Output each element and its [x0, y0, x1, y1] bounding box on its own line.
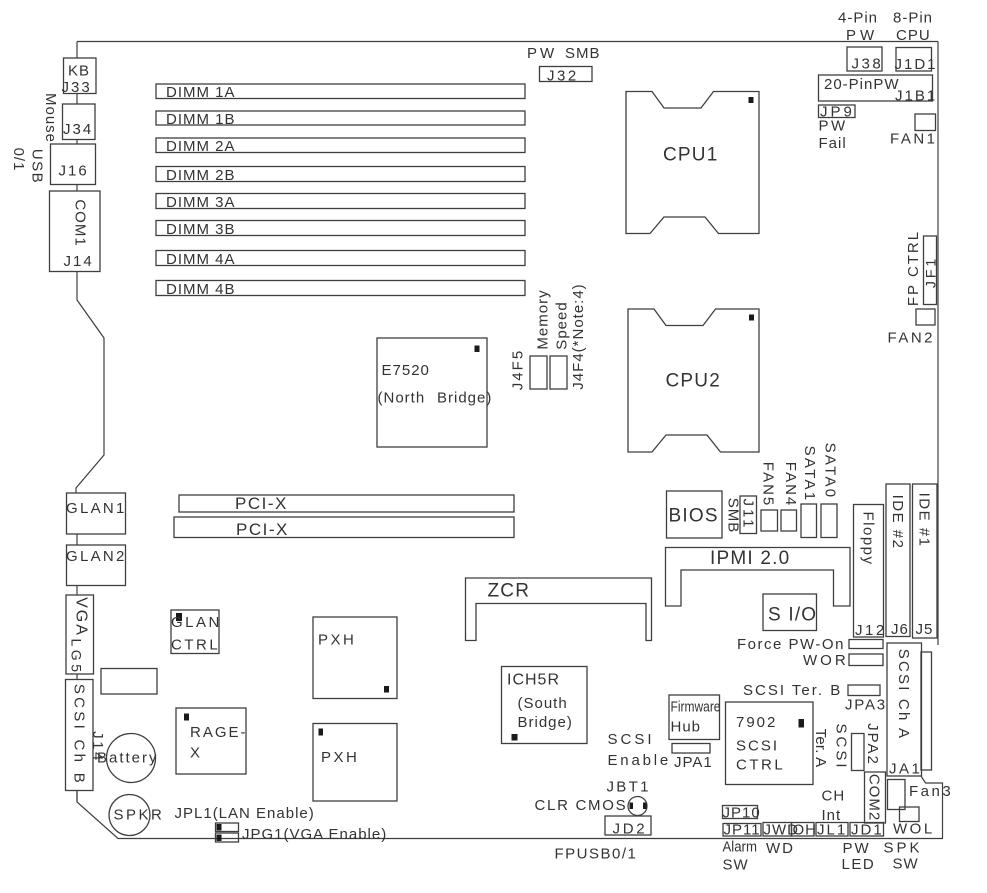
svg-text:J14: J14: [64, 253, 94, 270]
small unlabeled box near VGA: [101, 669, 157, 695]
svg-text:Mouse: Mouse: [42, 93, 59, 143]
svg-text:IDE #2: IDE #2: [889, 495, 906, 550]
svg-text:DIMM 4A: DIMM 4A: [166, 251, 236, 268]
svg-text:SCSI Ter. B: SCSI Ter. B: [743, 682, 842, 699]
svg-text:SMB: SMB: [565, 45, 601, 62]
jumper JWD WD: [763, 822, 799, 858]
svg-text:J11: J11: [739, 498, 756, 530]
svg-text:J16: J16: [59, 163, 89, 180]
svg-text:PCI-X: PCI-X: [235, 494, 288, 513]
svg-text:VGA: VGA: [72, 597, 89, 637]
chip ICH5R South Bridge: [502, 667, 588, 744]
svg-text:FP CTRL: FP CTRL: [905, 230, 922, 306]
wire board bottom-right notch: [77, 776, 943, 839]
connector FP CTRL JF1: [905, 230, 939, 306]
connector KB J33: [62, 58, 97, 96]
jumper J11 SMB: [724, 496, 756, 534]
svg-text:20-PinPW: 20-PinPW: [824, 76, 900, 93]
svg-text:CH: CH: [822, 788, 846, 805]
svg-text:JPG1(VGA Enable): JPG1(VGA Enable): [242, 826, 387, 843]
svg-text:IDE #1: IDE #1: [915, 493, 932, 548]
svg-text:J1B1: J1B1: [895, 88, 937, 105]
svg-text:JPA3: JPA3: [845, 697, 887, 714]
jumper JPG1 (VGA Enable): [216, 826, 388, 843]
svg-text:WD: WD: [766, 840, 795, 857]
jumper WOR: [803, 652, 883, 669]
DIMM 2A slot: [156, 138, 525, 155]
svg-text:WOR: WOR: [803, 652, 849, 669]
DIMM 1A slot: [156, 84, 525, 101]
connector GLAN1: [66, 493, 127, 534]
svg-text:SATA0: SATA0: [821, 443, 838, 500]
svg-text:CPU1: CPU1: [663, 145, 718, 166]
DIMM 3A slot: [156, 194, 525, 212]
svg-text:KB: KB: [68, 63, 90, 80]
svg-text:CLR CMOS: CLR CMOS: [535, 797, 628, 814]
svg-text:J4F4(*Note:4): J4F4(*Note:4): [570, 283, 587, 389]
svg-text:J34: J34: [63, 121, 93, 138]
connector JD2 FPUSB0/1: [555, 816, 652, 863]
connector 20-Pin PW J1B1: [819, 75, 938, 105]
svg-text:SMB: SMB: [724, 498, 741, 534]
svg-text:Fan3: Fan3: [909, 783, 953, 800]
svg-text:FAN2: FAN2: [888, 330, 936, 347]
slot ZCR: [466, 578, 652, 641]
connector FAN1: [890, 114, 938, 148]
svg-text:BIOS: BIOS: [669, 506, 719, 527]
svg-text:(North: (North: [378, 390, 426, 407]
svg-text:PXH: PXH: [321, 749, 359, 766]
svg-text:JPA2: JPA2: [864, 723, 881, 766]
socket CPU1: [626, 92, 759, 234]
jumper JPL1 (LAN Enable): [175, 805, 315, 832]
svg-text:8-Pin: 8-Pin: [893, 10, 933, 27]
svg-text:SPKR: SPKR: [114, 807, 165, 824]
svg-text:CPU: CPU: [896, 27, 931, 44]
jumper JPA2: [852, 723, 881, 770]
connector GLAN2: [66, 545, 127, 586]
chip 7902 SCSI CTRL: [726, 702, 814, 785]
svg-text:JBT1: JBT1: [607, 779, 651, 796]
slot PCI-X 2: [174, 517, 514, 539]
svg-text:JL1: JL1: [817, 822, 847, 839]
socket CPU2: [628, 309, 759, 452]
svg-text:Battery: Battery: [97, 750, 159, 767]
chip GLAN CTRL: [171, 610, 222, 654]
jumper JPA3 SCSI Ter. B: [743, 682, 887, 714]
connector SCSI Ch B: [66, 680, 94, 791]
svg-text:DIMM 3B: DIMM 3B: [166, 221, 236, 238]
wire between J16 and COM1: [76, 185, 78, 192]
jumper JP9 PW Fail: [819, 104, 856, 153]
svg-text:J33: J33: [62, 79, 92, 96]
connector COM2: [865, 772, 886, 823]
wire left edge segment top: [76, 42, 78, 59]
svg-text:SW: SW: [723, 857, 749, 874]
connector COM1 J14: [50, 191, 101, 272]
svg-text:SCSI Ch A: SCSI Ch A: [895, 649, 912, 741]
wire board right edge: [937, 42, 939, 646]
svg-text:J32: J32: [547, 68, 579, 85]
svg-text:Fail: Fail: [819, 135, 847, 152]
svg-text:SCSI: SCSI: [736, 738, 779, 755]
DIMM 3B slot: [156, 221, 525, 239]
connector SATA1: [801, 446, 818, 538]
svg-text:PW: PW: [846, 27, 878, 44]
svg-text:SATA1: SATA1: [801, 446, 818, 503]
svg-text:DIMM 2B: DIMM 2B: [166, 167, 236, 184]
svg-text:ICH5R: ICH5R: [507, 672, 560, 689]
node SPK SW label: [884, 840, 923, 873]
svg-text:E7520: E7520: [382, 362, 430, 379]
svg-text:DIMM 1B: DIMM 1B: [166, 111, 236, 128]
connector SATA0: [821, 443, 838, 538]
svg-text:4-Pin: 4-Pin: [838, 10, 878, 27]
connector Floppy J12: [854, 505, 887, 640]
chip PXH 2: [313, 724, 397, 802]
svg-text:JPL1(LAN Enable): JPL1(LAN Enable): [175, 805, 315, 822]
chip E7520 North Bridge: [377, 338, 492, 447]
connector SCSI Ch A JA1: [887, 643, 922, 778]
jumper J4F4 Memory Speed: [534, 283, 587, 389]
jumper JD1 PW LED: [842, 822, 884, 874]
svg-text:7902: 7902: [736, 714, 777, 731]
svg-text:Firmware: Firmware: [671, 698, 721, 715]
chip PXH 1: [313, 617, 397, 699]
svg-text:Speed: Speed: [553, 301, 570, 349]
chip S I/O: [763, 594, 817, 631]
svg-text:SCSI: SCSI: [832, 723, 849, 770]
connector IDE #1 J5: [913, 484, 938, 638]
svg-text:CTRL: CTRL: [171, 637, 220, 654]
svg-text:SCSI Ch B: SCSI Ch B: [70, 684, 87, 786]
svg-text:ZCR: ZCR: [488, 581, 531, 602]
svg-text:PW: PW: [819, 118, 848, 135]
svg-text:S I/O: S I/O: [768, 605, 817, 626]
svg-text:JD1: JD1: [851, 822, 884, 839]
jumper OH: [792, 822, 818, 839]
connector narrow header right of SCSI Ch A: [921, 652, 932, 770]
slot IPMI 2.0: [666, 548, 851, 607]
wire left edge below COM1: [76, 272, 104, 494]
svg-text:GLAN: GLAN: [171, 614, 222, 631]
svg-text:Ter. A: Ter. A: [812, 729, 829, 768]
svg-text:CTRL: CTRL: [736, 757, 785, 774]
svg-text:FAN5: FAN5: [759, 462, 776, 508]
wire between GLAN1 and GLAN2: [76, 534, 78, 545]
svg-text:JPA1: JPA1: [674, 754, 713, 771]
svg-text:J38: J38: [852, 56, 884, 73]
connector FAN5: [759, 462, 777, 531]
svg-text:FAN4: FAN4: [782, 462, 799, 508]
svg-text:PCI-X: PCI-X: [236, 520, 289, 539]
svg-text:0/1: 0/1: [10, 148, 27, 172]
svg-text:J5: J5: [916, 621, 934, 638]
svg-text:SPK: SPK: [884, 840, 923, 857]
svg-text:PW: PW: [843, 840, 871, 857]
wire between J34 and J16: [76, 140, 78, 145]
wire between GLAN2 and VGA: [76, 586, 78, 596]
svg-text:COM1: COM1: [71, 199, 88, 246]
connector WOL: [893, 807, 935, 838]
svg-text:FPUSB0/1: FPUSB0/1: [555, 846, 638, 863]
svg-text:OH: OH: [793, 822, 818, 839]
svg-text:JP10: JP10: [723, 805, 761, 822]
speaker SPKR: [109, 795, 164, 836]
svg-text:WOL: WOL: [893, 821, 935, 838]
DIMM 4A slot: [156, 251, 525, 269]
svg-text:COM2: COM2: [865, 774, 882, 821]
svg-text:Memory: Memory: [534, 289, 551, 349]
connector FAN2: [888, 309, 936, 347]
battery: [97, 734, 159, 783]
connector IDE #2 J6: [886, 484, 910, 638]
svg-text:X: X: [190, 745, 201, 762]
svg-text:GLAN1: GLAN1: [66, 500, 127, 517]
jumper Force PW-On: [737, 636, 883, 653]
svg-text:SW: SW: [893, 856, 919, 873]
svg-text:(South: (South: [518, 695, 568, 712]
connector PW SMB J32: [527, 45, 601, 85]
svg-text:GLAN2: GLAN2: [66, 548, 127, 565]
svg-text:Floppy: Floppy: [859, 511, 876, 565]
svg-text:LG5: LG5: [69, 639, 85, 676]
svg-text:JP11: JP11: [724, 822, 761, 839]
svg-text:DIMM 2A: DIMM 2A: [166, 138, 236, 155]
svg-text:Hub: Hub: [671, 719, 702, 736]
svg-text:USB: USB: [28, 149, 45, 184]
slot PCI-X 1: [179, 494, 514, 513]
svg-text:FAN1: FAN1: [890, 131, 938, 148]
svg-text:DIMM 3A: DIMM 3A: [166, 194, 236, 211]
DIMM 4B slot: [156, 281, 525, 299]
svg-text:JF1: JF1: [922, 256, 938, 288]
jumper JBT1 CLR CMOS: [535, 779, 651, 816]
svg-text:Force PW-On: Force PW-On: [737, 636, 845, 653]
connector FAN4: [781, 462, 799, 531]
wire board top edge: [77, 41, 938, 43]
jumper JL1: [816, 822, 848, 839]
connector Mouse J34: [42, 93, 95, 143]
jumper JPA1 SCSI Enable: [608, 731, 713, 771]
jumper JP10: [723, 805, 761, 822]
svg-text:J6: J6: [891, 621, 909, 638]
svg-text:Bridge): Bridge): [437, 390, 492, 407]
wire between VGA and SCSI Ch B: [76, 674, 78, 680]
svg-text:Enable: Enable: [608, 752, 672, 769]
jumper JP11 Alarm SW: [723, 822, 762, 874]
connector USB 0/1 J16: [10, 144, 96, 185]
chip RAGE-X: [176, 708, 248, 774]
connector 8-Pin CPU J1D1: [893, 10, 938, 74]
svg-text:DIMM 1A: DIMM 1A: [166, 84, 236, 101]
svg-text:DIMM 4B: DIMM 4B: [166, 281, 236, 298]
DIMM 1B slot: [156, 111, 525, 128]
connector 4-Pin PW J38: [838, 10, 883, 73]
connector VGA LG5: [66, 595, 94, 675]
svg-text:J4F5: J4F5: [509, 349, 526, 390]
svg-text:J12: J12: [855, 622, 887, 639]
wire between J33 and J34: [76, 94, 78, 105]
jumper J4F5: [509, 349, 547, 390]
svg-text:Bridge): Bridge): [518, 714, 573, 731]
svg-text:RAGE-: RAGE-: [190, 724, 248, 741]
svg-text:SCSI: SCSI: [608, 731, 655, 748]
chip Firmware Hub: [669, 695, 720, 740]
connector Fan3: [888, 780, 954, 810]
DIMM 2B slot: [156, 167, 525, 185]
svg-text:JD2: JD2: [613, 821, 648, 838]
svg-text:PW: PW: [527, 45, 557, 62]
wire below SCSI Ch B: [76, 791, 78, 803]
svg-text:IPMI 2.0: IPMI 2.0: [710, 548, 790, 569]
svg-text:Alarm: Alarm: [723, 838, 757, 855]
svg-text:J1D1: J1D1: [895, 56, 938, 73]
chip BIOS: [667, 491, 723, 538]
svg-text:CPU2: CPU2: [666, 371, 721, 392]
svg-text:PXH: PXH: [318, 632, 356, 649]
svg-text:JA1: JA1: [889, 761, 922, 778]
svg-text:LED: LED: [842, 856, 876, 873]
